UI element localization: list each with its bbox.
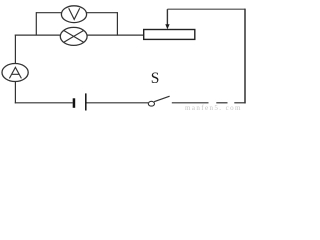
svg-text:S: S [151,70,160,87]
svg-text:manfen5. com: manfen5. com [185,104,242,112]
